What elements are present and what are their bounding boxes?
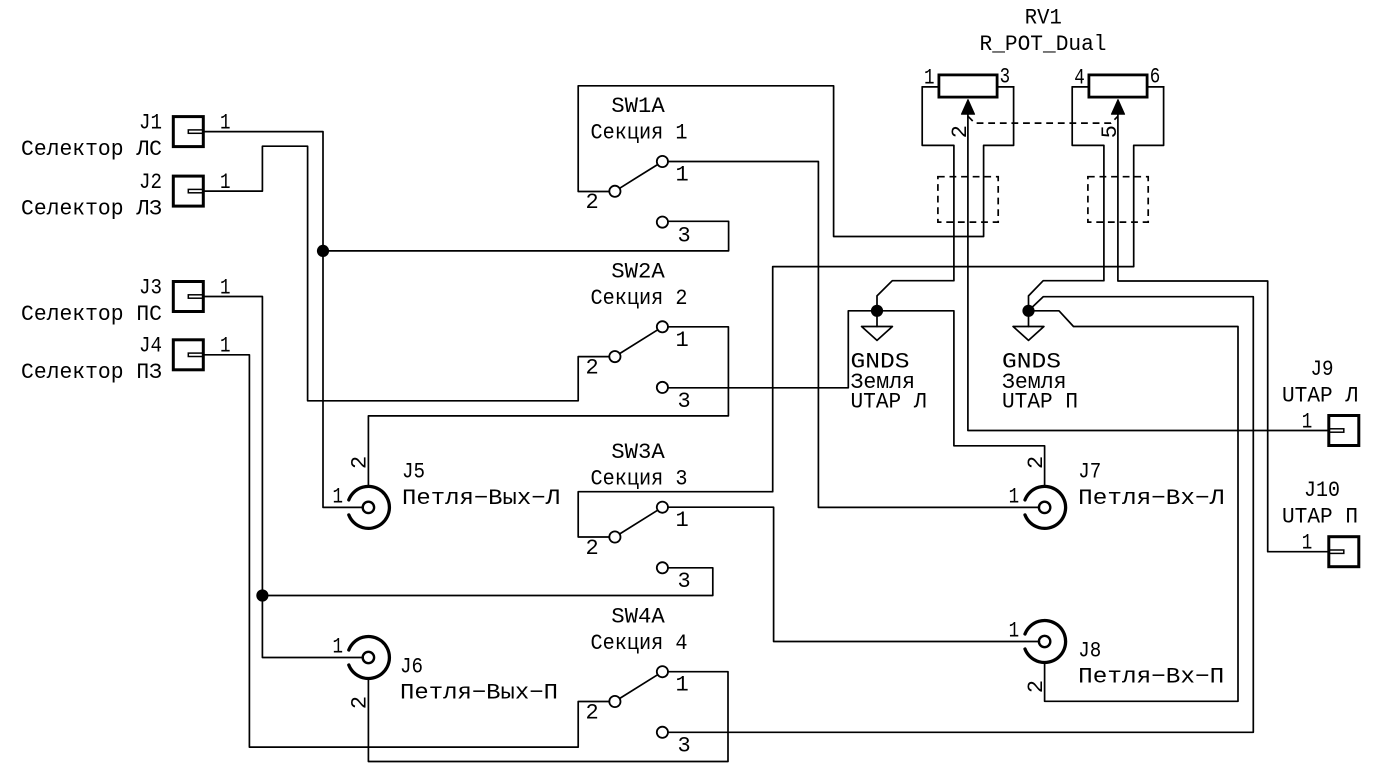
svg-text:J6: J6 [400, 655, 423, 680]
ground symbol GNDS Земля UTAP П [1013, 311, 1044, 341]
potentiometer RV1 wiper arrow right section [1111, 100, 1124, 115]
svg-text:2: 2 [586, 190, 599, 215]
pin stub left of RV1 right section [1072, 86, 1087, 88]
svg-text:Петля−Вх−П: Петля−Вх−П [1078, 665, 1224, 690]
svg-text:1: 1 [676, 508, 689, 533]
svg-text:SW4A: SW4A [611, 604, 665, 629]
wire junction GNDS-L to J7.2 [877, 311, 1045, 487]
svg-text:J9: J9 [1311, 357, 1334, 382]
svg-text:Секция 3: Секция 3 [591, 466, 688, 491]
wire SW3A.2 to RV1.6 [578, 87, 1163, 537]
svg-text:Петля−Вых−П: Петля−Вых−П [400, 681, 558, 706]
svg-text:2: 2 [948, 125, 973, 138]
svg-text:2: 2 [586, 356, 599, 381]
wire SW1A.1 to J7.1 [668, 162, 1039, 508]
svg-text:J3: J3 [139, 275, 162, 300]
svg-text:J10: J10 [1304, 478, 1340, 503]
svg-text:Селектор ЛЗ: Селектор ЛЗ [21, 197, 162, 222]
pin stub left of RV1 left section [922, 86, 937, 88]
connector J9 [1329, 416, 1359, 446]
wire junction B to J6.1 [262, 596, 363, 658]
connector J4 [173, 340, 203, 370]
svg-text:J5: J5 [402, 460, 425, 485]
pin stub right of RV1 left section [999, 86, 1014, 88]
pin stub right of RV1 right section [1149, 86, 1164, 88]
potentiometer RV1 body right section [1089, 75, 1147, 97]
svg-text:3: 3 [678, 734, 691, 759]
potentiometer RV1 body left section [939, 75, 997, 97]
wire SW3A.1 to J8.1 [668, 507, 1039, 641]
svg-text:3: 3 [1000, 65, 1011, 90]
svg-text:SW1A: SW1A [611, 94, 665, 119]
connector J1 [173, 117, 203, 147]
wire RV1.2 wiper to J9.1 [968, 114, 1327, 430]
svg-text:UTAP Л: UTAP Л [851, 390, 927, 415]
wire junction A to J5.1 [323, 251, 363, 508]
wire junction A to SW1A.3 [323, 221, 729, 251]
svg-text:1: 1 [676, 163, 689, 188]
svg-text:1: 1 [676, 328, 689, 353]
svg-text:Секция 2: Секция 2 [591, 286, 688, 311]
coax connector J6 [349, 637, 390, 679]
wire J5.2 to SW2A.1 [368, 327, 728, 487]
switch SW1A [609, 156, 668, 228]
svg-text:1: 1 [924, 65, 935, 90]
svg-text:J7: J7 [1078, 460, 1101, 485]
dashed box below RV1 left section [938, 177, 998, 222]
svg-text:Петля−Вх−Л: Петля−Вх−Л [1078, 486, 1224, 511]
svg-text:J4: J4 [139, 334, 162, 359]
svg-text:1: 1 [676, 673, 689, 698]
svg-text:SW2A: SW2A [611, 259, 665, 284]
svg-text:Секция 1: Секция 1 [591, 121, 688, 146]
potentiometer RV1 wiper arrow left section [961, 100, 974, 115]
svg-text:1: 1 [333, 634, 344, 659]
svg-text:R_POT_Dual: R_POT_Dual [980, 32, 1107, 57]
svg-text:J1: J1 [139, 111, 162, 136]
svg-text:3: 3 [678, 224, 691, 249]
svg-text:2: 2 [586, 700, 599, 725]
wire J4.1 to SW4A.2 [205, 355, 610, 747]
connector J10 [1329, 537, 1359, 567]
svg-text:SW3A: SW3A [611, 440, 665, 465]
coax connector J7 [1025, 486, 1066, 528]
wire junction GNDS-L to RV1.1 [877, 87, 954, 311]
coax connector J5 [349, 486, 390, 528]
svg-text:1: 1 [1009, 618, 1020, 643]
svg-text:UTAP Л: UTAP Л [1282, 384, 1358, 409]
svg-text:5: 5 [1098, 125, 1123, 138]
RV1 mechanical coupling dashed link [968, 116, 1118, 123]
junction A (J1/SW1A.3/J5.1) [317, 245, 329, 257]
switch SW4A [609, 666, 668, 738]
junction GNDS-P [1022, 305, 1034, 317]
wire SW4A.1 to J6.2 [368, 672, 728, 762]
wire J2.1 to SW2A.2 [205, 146, 610, 401]
svg-text:UTAP П: UTAP П [1282, 505, 1358, 530]
wire SW2A.3 to junction GNDS-L [668, 311, 877, 388]
svg-text:4: 4 [1074, 65, 1085, 90]
wire junction GNDS-P to RV1.4 [1029, 87, 1104, 311]
connector J3 [173, 282, 203, 312]
junction B (J3/SW3A.3/J6.1) [256, 589, 268, 601]
svg-text:Селектор ЛС: Селектор ЛС [21, 137, 162, 162]
svg-text:3: 3 [678, 569, 691, 594]
svg-text:J8: J8 [1078, 639, 1101, 664]
svg-text:RV1: RV1 [1025, 5, 1062, 30]
wire junction B to SW3A.3 [262, 568, 712, 596]
wire SW4A.3 to junction GNDS-P [668, 297, 1253, 733]
switch SW3A [609, 502, 668, 574]
wire junction GNDS-P to J8.2 [1029, 311, 1239, 702]
svg-text:UTAP П: UTAP П [1002, 390, 1078, 415]
wire RV1.5 wiper to J10.1 [1118, 114, 1327, 552]
svg-text:3: 3 [678, 389, 691, 414]
svg-text:Секция 4: Секция 4 [591, 631, 688, 656]
svg-text:1: 1 [333, 484, 344, 509]
switch SW2A [609, 321, 668, 393]
svg-text:Селектор ПС: Селектор ПС [21, 302, 162, 327]
junction GNDS-L [871, 305, 883, 317]
wire SW1A.2 to RV1.3 [578, 86, 1013, 237]
wire J1.1 to junction A [205, 132, 323, 251]
connector J2 [173, 176, 203, 206]
svg-text:J2: J2 [139, 170, 162, 195]
svg-text:6: 6 [1150, 65, 1161, 90]
svg-text:2: 2 [586, 536, 599, 561]
coax connector J8 [1025, 621, 1066, 663]
dashed box below RV1 right section [1088, 177, 1148, 222]
wire J3.1 to junction B [205, 297, 263, 596]
ground symbol GNDS Земля UTAP Л [862, 311, 893, 341]
svg-text:1: 1 [1009, 484, 1020, 509]
svg-text:Селектор ПЗ: Селектор ПЗ [21, 360, 162, 385]
svg-text:Петля−Вых−Л: Петля−Вых−Л [402, 486, 560, 511]
